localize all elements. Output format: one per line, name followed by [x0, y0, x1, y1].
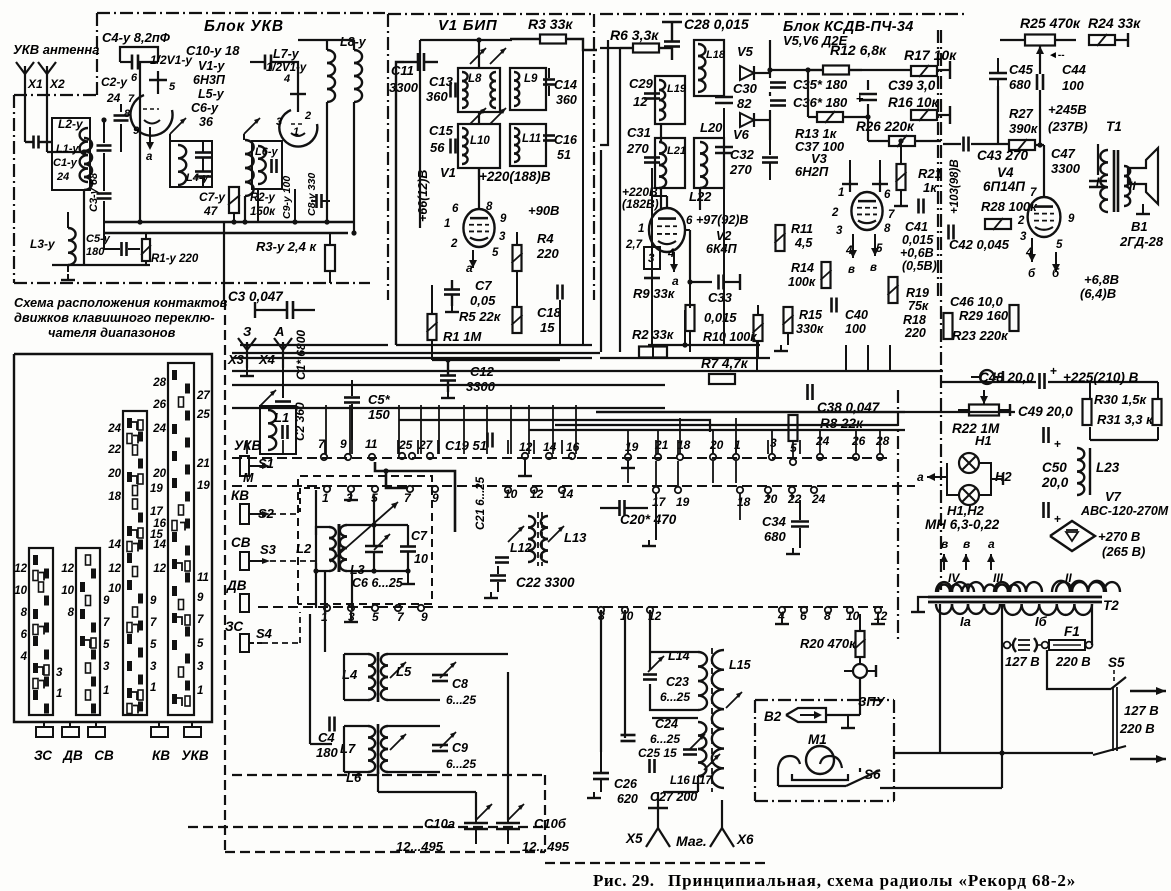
- wire verticals into rails: [246, 440, 248, 454]
- svg-text:L9: L9: [524, 73, 538, 85]
- svg-text:L6-у: L6-у: [255, 146, 279, 158]
- coil L16 L17: [698, 722, 706, 736]
- trimmer arrow 1: [170, 118, 186, 134]
- speaker В1: [1128, 148, 1158, 204]
- svg-text:V7: V7: [1105, 489, 1122, 504]
- svg-text:5: 5: [197, 638, 204, 650]
- svg-text:С15: С15: [429, 123, 454, 138]
- svg-text:127 В: 127 В: [1005, 654, 1040, 669]
- svg-text:L13: L13: [564, 530, 587, 545]
- svg-text:11: 11: [365, 437, 378, 451]
- svg-text:а: а: [988, 537, 995, 551]
- svg-text:4: 4: [283, 73, 290, 85]
- svg-text:2: 2: [450, 238, 458, 250]
- coil L3 with trimmer: [340, 525, 347, 537]
- diode V6: [740, 113, 754, 127]
- resistor R1-у 220: [142, 239, 150, 261]
- coil L4-у box: [170, 141, 212, 187]
- L14 loop wires: [650, 651, 698, 653]
- svg-text:75к: 75к: [908, 299, 929, 313]
- wire antennas down: [24, 92, 26, 142]
- svg-text:4: 4: [20, 651, 28, 663]
- contact strip ДВ: [76, 548, 100, 715]
- svg-text:12: 12: [61, 563, 74, 575]
- svg-text:L7: L7: [340, 741, 356, 756]
- svg-text:R1 1М: R1 1М: [443, 329, 482, 344]
- svg-text:150к: 150к: [250, 206, 276, 218]
- svg-text:L12: L12: [510, 541, 532, 555]
- svg-text:26: 26: [152, 399, 166, 411]
- transformer Т2 primary windings: [936, 582, 952, 592]
- svg-text:S5: S5: [1108, 655, 1125, 670]
- wire bus y418: [399, 420, 710, 432]
- svg-text:3: 3: [499, 231, 506, 243]
- svg-text:L20: L20: [700, 120, 723, 135]
- svg-text:L3-у: L3-у: [30, 237, 56, 251]
- svg-text:V6: V6: [733, 127, 750, 142]
- svg-text:5: 5: [372, 610, 379, 624]
- svg-text:R6 3,3к: R6 3,3к: [610, 27, 659, 43]
- svg-text:С16: С16: [554, 133, 578, 147]
- svg-text:чателя диапазонов: чателя диапазонов: [48, 325, 176, 340]
- svg-text:С45: С45: [1009, 62, 1034, 77]
- svg-text:127 В: 127 В: [1124, 703, 1159, 718]
- svg-text:М1: М1: [808, 732, 827, 747]
- svg-text:R31 3,3 к: R31 3,3 к: [1097, 412, 1154, 427]
- svg-text:24: 24: [106, 91, 121, 105]
- svg-text:С4: С4: [318, 730, 335, 745]
- svg-text:5: 5: [1056, 239, 1063, 251]
- svg-text:8: 8: [124, 108, 131, 120]
- svg-text:3300: 3300: [466, 379, 496, 394]
- capacitors near L4-у: [195, 151, 211, 154]
- block frame БИП: [388, 13, 592, 15]
- svg-text:20: 20: [709, 438, 724, 452]
- svg-text:R12 6,8к: R12 6,8к: [830, 42, 887, 58]
- svg-text:С29: С29: [629, 76, 654, 91]
- svg-text:100: 100: [1062, 78, 1084, 93]
- svg-text:ЗПУ: ЗПУ: [858, 694, 886, 709]
- svg-text:9: 9: [197, 592, 204, 604]
- svg-text:1: 1: [838, 187, 844, 199]
- svg-text:+6,8В: +6,8В: [1084, 272, 1119, 287]
- antenna X1: [24, 66, 26, 92]
- switch contacts outer box: [14, 354, 212, 722]
- wire tap 127В down: [1001, 604, 1003, 645]
- svg-text:+: +: [1054, 437, 1061, 451]
- coil L6-у box: [252, 141, 282, 189]
- svg-text:С7: С7: [411, 529, 428, 543]
- svg-text:L1-у: L1-у: [56, 143, 80, 155]
- capacitor C33 symbol: [717, 275, 720, 290]
- svg-text:6Н2П: 6Н2П: [795, 164, 829, 179]
- resistor slashed C7-у area: [229, 187, 239, 213]
- svg-text:L16: L16: [670, 775, 690, 787]
- svg-text:С34: С34: [762, 514, 787, 529]
- svg-text:10: 10: [14, 585, 27, 597]
- wires КСДВ left: [600, 47, 620, 49]
- svg-text:Т2: Т2: [1103, 598, 1119, 613]
- svg-text:47: 47: [203, 204, 219, 218]
- dashed box L2 coils: [298, 476, 432, 604]
- switch S5 bar double line: [1112, 687, 1114, 751]
- svg-text:12: 12: [153, 563, 166, 575]
- svg-text:R19: R19: [906, 286, 929, 300]
- svg-text:R1-у 220: R1-у 220: [151, 253, 199, 265]
- svg-text:180: 180: [86, 246, 105, 258]
- svg-text:F1: F1: [1064, 624, 1080, 639]
- svg-text:27: 27: [196, 390, 210, 402]
- svg-text:L2: L2: [296, 541, 312, 556]
- svg-text:330к: 330к: [796, 322, 824, 336]
- svg-text:6...25: 6...25: [446, 693, 476, 707]
- svg-text:R11: R11: [791, 222, 813, 236]
- svg-text:16: 16: [153, 518, 166, 530]
- svg-text:С4-у 8,2пФ: С4-у 8,2пФ: [102, 30, 171, 45]
- wires КСДВ mid: [770, 69, 823, 71]
- svg-text:Х6: Х6: [736, 832, 754, 847]
- wire C4 top loop: [120, 47, 158, 62]
- svg-text:С42 0,045: С42 0,045: [949, 237, 1010, 252]
- wire drops right midband: [845, 345, 847, 371]
- svg-text:(0,5В): (0,5В): [902, 259, 937, 273]
- svg-text:+103(98)В: +103(98)В: [949, 159, 961, 214]
- svg-text:С1* 6800: С1* 6800: [294, 330, 308, 380]
- svg-text:С21 6...25: С21 6...25: [475, 476, 487, 530]
- svg-text:L2-у: L2-у: [58, 117, 84, 131]
- svg-text:180: 180: [316, 745, 338, 760]
- capacitor C7 10: [400, 545, 416, 548]
- svg-text:R14: R14: [791, 261, 814, 275]
- wires L14 section verticals: [600, 610, 602, 752]
- svg-text:1: 1: [103, 685, 109, 697]
- svg-text:L18: L18: [706, 49, 726, 61]
- svg-text:6...25: 6...25: [650, 732, 680, 746]
- C24 loop wires: [652, 717, 698, 719]
- svg-text:20: 20: [107, 468, 121, 480]
- trimmer arrow L3: [330, 502, 398, 562]
- svg-text:12: 12: [108, 563, 121, 575]
- svg-text:С33: С33: [708, 290, 733, 305]
- svg-text:100к: 100к: [788, 275, 816, 289]
- resistor small mid: [513, 307, 522, 333]
- winding III: [984, 585, 996, 592]
- frame right speaker area: [940, 30, 942, 590]
- wire 220В to blade: [1047, 650, 1111, 689]
- svg-text:2: 2: [831, 207, 839, 219]
- svg-text:С47: С47: [1051, 146, 1076, 161]
- svg-text:II: II: [1129, 179, 1136, 193]
- dash from S2: [270, 513, 298, 515]
- svg-text:6П14П: 6П14П: [983, 179, 1025, 194]
- winding IV: [938, 585, 950, 592]
- wire T1 primary: [1097, 144, 1099, 175]
- svg-text:360: 360: [426, 89, 448, 104]
- svg-text:R18: R18: [903, 313, 926, 327]
- svg-text:R3-у 2,4 к: R3-у 2,4 к: [256, 239, 317, 254]
- svg-text:3: 3: [197, 661, 204, 673]
- svg-text:18: 18: [677, 438, 691, 452]
- svg-text:С43 270: С43 270: [977, 148, 1029, 163]
- switch rail row3: [258, 606, 886, 608]
- wire bus y233: [104, 232, 348, 235]
- svg-text:(265 В): (265 В): [1102, 544, 1145, 559]
- svg-text:в: в: [870, 262, 877, 274]
- svg-text:в: в: [848, 264, 855, 276]
- svg-text:19: 19: [676, 495, 690, 509]
- svg-text:12...495: 12...495: [522, 839, 570, 854]
- svg-text:3: 3: [836, 225, 843, 237]
- wire bus y428: [529, 429, 905, 431]
- capacitors on x104 chain: [97, 144, 112, 147]
- resistor below C36: [817, 112, 843, 122]
- svg-text:Х3: Х3: [227, 352, 245, 367]
- dashed corner bracket: [300, 488, 320, 512]
- svg-text:ДВ: ДВ: [226, 578, 247, 593]
- svg-text:С11: С11: [391, 63, 414, 78]
- svg-text:L5: L5: [396, 664, 412, 679]
- svg-text:7: 7: [1030, 187, 1037, 199]
- svg-text:22: 22: [107, 444, 121, 456]
- svg-text:14: 14: [108, 539, 121, 551]
- contact strip ЗС: [29, 548, 53, 715]
- svg-text:Блок УКВ: Блок УКВ: [204, 18, 284, 35]
- svg-text:R4: R4: [537, 231, 554, 246]
- svg-text:С10-у 18: С10-у 18: [186, 43, 240, 58]
- svg-text:3: 3: [1020, 231, 1027, 243]
- wire bus y222: [104, 221, 354, 224]
- svg-text:+220(188)В: +220(188)В: [479, 169, 551, 184]
- svg-text:С35* 180: С35* 180: [793, 77, 848, 92]
- svg-text:+: +: [856, 91, 864, 106]
- svg-text:Т1: Т1: [1106, 119, 1122, 134]
- svg-text:82: 82: [737, 96, 752, 111]
- svg-text:С23: С23: [666, 675, 689, 689]
- svg-text:3: 3: [103, 661, 110, 673]
- wires bottom-left section: [324, 572, 326, 652]
- svg-text:19: 19: [197, 480, 210, 492]
- svg-text:7: 7: [103, 617, 110, 629]
- svg-text:R30 1,5к: R30 1,5к: [1094, 392, 1148, 407]
- svg-text:620: 620: [617, 792, 638, 806]
- wire V2 plate supply: [666, 196, 668, 208]
- svg-text:6: 6: [884, 189, 891, 201]
- svg-text:19: 19: [150, 483, 163, 495]
- svg-text:Х4: Х4: [258, 352, 276, 367]
- svg-text:+: +: [1054, 512, 1061, 526]
- svg-text:1: 1: [444, 218, 450, 230]
- svg-text:8: 8: [68, 607, 75, 619]
- svg-text:L7-у: L7-у: [273, 47, 300, 61]
- svg-text:3: 3: [150, 661, 157, 673]
- svg-text:а: а: [917, 470, 924, 484]
- svg-text:УКВ: УКВ: [181, 748, 208, 763]
- capacitor C1-у: [32, 136, 35, 149]
- svg-text:R21: R21: [918, 166, 942, 181]
- svg-text:360: 360: [556, 93, 577, 107]
- svg-text:Рис. 29.: Рис. 29.: [593, 871, 654, 890]
- svg-text:4,5: 4,5: [794, 236, 813, 250]
- svg-text:R15: R15: [799, 308, 823, 322]
- dash from S3: [270, 560, 316, 562]
- svg-text:9: 9: [500, 213, 507, 225]
- cathode resistor box V2: [644, 247, 660, 269]
- svg-text:С7-у: С7-у: [199, 190, 226, 204]
- svg-text:L10: L10: [470, 135, 490, 147]
- svg-text:L6: L6: [346, 770, 362, 785]
- svg-text:С10б: С10б: [534, 816, 567, 831]
- svg-text:Н1,Н2: Н1,Н2: [947, 503, 985, 518]
- svg-text:С3-у 68: С3-у 68: [88, 172, 100, 212]
- svg-text:5: 5: [492, 247, 499, 259]
- svg-text:Х2: Х2: [49, 77, 65, 91]
- svg-text:0,015: 0,015: [902, 233, 934, 247]
- svg-text:R23 220к: R23 220к: [952, 328, 1009, 343]
- tube V4: [1028, 197, 1061, 237]
- svg-text:R29 160: R29 160: [959, 308, 1009, 323]
- svg-text:L5-у: L5-у: [198, 87, 225, 101]
- svg-text:+225(210) В: +225(210) В: [1063, 370, 1139, 385]
- svg-text:С49 20,0: С49 20,0: [1018, 404, 1073, 419]
- wire verticals УКВ: [139, 62, 141, 222]
- IF transformer L8 L9 box: [458, 68, 500, 112]
- svg-text:V1 БИП: V1 БИП: [438, 17, 498, 34]
- svg-text:18: 18: [108, 491, 121, 503]
- svg-text:С26: С26: [614, 777, 638, 791]
- vertical x316: [315, 490, 317, 608]
- svg-text:С9: С9: [452, 741, 468, 755]
- resistor R3-у: [325, 245, 335, 271]
- svg-text:L1: L1: [274, 410, 289, 425]
- svg-text:6: 6: [21, 629, 28, 641]
- svg-text:С19 51: С19 51: [445, 438, 487, 453]
- svg-text:3300: 3300: [1051, 161, 1081, 176]
- svg-text:12: 12: [633, 94, 648, 109]
- svg-text:С28 0,015: С28 0,015: [684, 16, 749, 32]
- svg-text:R25 470к: R25 470к: [1020, 15, 1081, 31]
- svg-text:15: 15: [540, 320, 555, 335]
- capacitor C37: [762, 156, 778, 159]
- svg-text:L21: L21: [667, 145, 686, 157]
- svg-text:Схема расположения контактов: Схема расположения контактов: [14, 295, 228, 310]
- capacitor C9-у cap: [270, 159, 273, 173]
- svg-text:51: 51: [557, 148, 571, 162]
- svg-text:6...25: 6...25: [446, 757, 476, 771]
- svg-text:С44: С44: [1062, 62, 1087, 77]
- svg-text:220: 220: [904, 326, 926, 340]
- svg-text:6К4П: 6К4П: [706, 242, 738, 256]
- coil L21: [655, 138, 685, 188]
- svg-text:+90В: +90В: [528, 203, 559, 218]
- svg-text:V4: V4: [997, 165, 1014, 180]
- wire bottom to S5: [894, 752, 1093, 754]
- rectifier V7 diamond: [1050, 521, 1095, 551]
- svg-text:+66(12)В: +66(12)В: [416, 170, 430, 222]
- wire C43 row: [971, 143, 1009, 145]
- svg-text:б: б: [1028, 268, 1036, 280]
- svg-text:7: 7: [888, 209, 895, 221]
- svg-text:С8: С8: [452, 677, 468, 691]
- contact strip КВ: [123, 411, 147, 715]
- svg-text:9: 9: [103, 595, 110, 607]
- antenna X2: [46, 66, 48, 92]
- svg-text:Х5: Х5: [625, 831, 643, 846]
- svg-text:С1-у: С1-у: [53, 157, 78, 169]
- svg-text:24: 24: [56, 171, 69, 183]
- svg-text:56: 56: [430, 140, 445, 155]
- svg-text:+: +: [1050, 364, 1057, 378]
- trimmer crosses: [470, 48, 486, 64]
- svg-text:С22 3300: С22 3300: [516, 575, 575, 590]
- wire verticals КСДВ drop: [651, 168, 653, 345]
- svg-text:R5 22к: R5 22к: [459, 309, 502, 324]
- wire C45 column: [997, 86, 999, 144]
- svg-text:Х1: Х1: [27, 77, 43, 91]
- potentiometer R22 1М: [969, 405, 999, 416]
- L2 L3 core: [338, 524, 341, 572]
- svg-text:Маг.: Маг.: [676, 833, 707, 849]
- svg-text:в: в: [941, 537, 948, 551]
- svg-text:2,7: 2,7: [625, 239, 643, 251]
- svg-text:7: 7: [128, 93, 135, 105]
- wire inter-rail stubs: [627, 461, 629, 483]
- svg-text:+270 В: +270 В: [1098, 529, 1140, 544]
- svg-text:28: 28: [152, 377, 166, 389]
- svg-text:9: 9: [432, 491, 439, 505]
- svg-text:Iб: Iб: [1035, 614, 1048, 629]
- wire V2 pin6 down: [689, 230, 691, 282]
- svg-text:V1-у: V1-у: [198, 59, 225, 73]
- wire verticals БИП drop: [559, 300, 561, 345]
- svg-text:КВ: КВ: [231, 488, 249, 503]
- svg-text:С40: С40: [845, 308, 868, 322]
- svg-text:10: 10: [61, 585, 74, 597]
- wire L6 down: [294, 189, 296, 222]
- svg-text:6: 6: [131, 72, 138, 84]
- wire lamps loop: [947, 463, 959, 495]
- svg-text:L23: L23: [1096, 460, 1120, 475]
- arrow output bottom: [1130, 758, 1166, 760]
- tube V1: [463, 209, 494, 247]
- svg-text:З: З: [243, 324, 252, 339]
- svg-text:17: 17: [652, 495, 667, 509]
- connector stubs below box: [43, 722, 45, 727]
- arrow output top: [1130, 690, 1166, 692]
- svg-text:С31: С31: [627, 125, 651, 140]
- svg-text:ЗС: ЗС: [225, 619, 243, 634]
- tube V2: [649, 208, 685, 252]
- svg-text:25: 25: [398, 438, 413, 452]
- Т2 core: [928, 596, 1102, 599]
- wire T2 left end ground: [918, 597, 928, 612]
- svg-text:3: 3: [56, 667, 63, 679]
- svg-text:R8 22к: R8 22к: [820, 416, 864, 431]
- svg-text:5: 5: [169, 81, 176, 93]
- svg-text:2ГД-28: 2ГД-28: [1119, 234, 1164, 249]
- svg-text:С5*: С5*: [368, 392, 391, 407]
- svg-text:+245В: +245В: [1048, 102, 1087, 117]
- svg-text:18: 18: [737, 495, 751, 509]
- svg-text:12: 12: [519, 440, 533, 454]
- svg-text:С25 15: С25 15: [638, 746, 677, 760]
- svg-text:150: 150: [368, 407, 390, 422]
- Т2 secondary Iа Iб: [936, 604, 952, 614]
- svg-text:В2: В2: [764, 709, 782, 724]
- svg-text:R27: R27: [1009, 106, 1034, 121]
- svg-text:1: 1: [293, 126, 299, 138]
- coil L1 УКВ: [260, 406, 296, 454]
- svg-text:С5-у: С5-у: [86, 233, 111, 245]
